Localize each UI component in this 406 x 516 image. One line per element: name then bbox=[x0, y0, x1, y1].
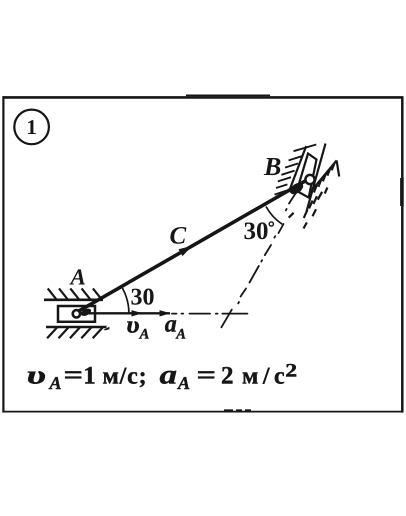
svg-text:1: 1 bbox=[83, 363, 96, 390]
svg-text:30: 30 bbox=[244, 218, 269, 245]
frame left border bbox=[2, 96, 4, 412]
frame top border bbox=[3, 96, 403, 99]
svg-text:C: C bbox=[170, 223, 187, 250]
arrowhead at C bbox=[179, 246, 193, 256]
hatching left of B guide bbox=[275, 145, 317, 195]
slider block A bbox=[58, 306, 95, 322]
right guide line at B bbox=[307, 144, 326, 212]
svg-text:A: A bbox=[49, 373, 62, 393]
svg-text:м/с: м/с bbox=[242, 364, 289, 390]
right border thick blob segment bbox=[400, 178, 404, 206]
task number circle bbox=[14, 110, 49, 145]
frame right border bbox=[401, 96, 404, 412]
lower guide line at A bbox=[46, 326, 107, 329]
arrowhead aA bbox=[160, 310, 171, 316]
horizontal dash-dot axis bbox=[172, 313, 247, 315]
svg-text:A: A bbox=[177, 373, 190, 393]
fringe ticks under right wall line bbox=[314, 163, 335, 193]
degree mark of 30 at B bbox=[269, 222, 273, 226]
left guide line at B bbox=[289, 146, 306, 192]
lambda leg at top right of B guide bbox=[337, 160, 340, 176]
slider block B bbox=[297, 154, 317, 198]
frame bottom border bbox=[3, 411, 404, 413]
angle arc at A bbox=[122, 288, 128, 313]
arrowhead vA bbox=[132, 310, 143, 316]
svg-text:30: 30 bbox=[131, 284, 155, 310]
svg-text:1: 1 bbox=[26, 115, 37, 139]
pin B bbox=[305, 175, 314, 184]
svg-text:=: = bbox=[197, 361, 217, 390]
lower guide hatching at A bbox=[47, 328, 103, 339]
svg-text:a: a bbox=[160, 360, 178, 390]
svg-text:2: 2 bbox=[221, 363, 234, 390]
inclined dash-dot axis through B bbox=[221, 192, 296, 327]
upper guide hatching at A bbox=[48, 288, 102, 299]
frame top border thick segment bbox=[186, 94, 270, 96]
svg-text:=: = bbox=[64, 361, 84, 390]
velocity/acceleration arrow line at A bbox=[79, 312, 170, 314]
svg-text:A: A bbox=[139, 326, 150, 342]
svg-text:A: A bbox=[69, 264, 86, 289]
knot blob right of pin A bbox=[80, 307, 93, 317]
small fleck left of vA label bbox=[104, 327, 110, 331]
pin A bbox=[73, 310, 80, 317]
hatching wall line right of B guide bbox=[310, 160, 337, 192]
rod AB bbox=[78, 179, 310, 312]
svg-text:a: a bbox=[165, 311, 177, 337]
formula: vA = 1 m/s; aA = 2 m/s^2 bbox=[27, 360, 298, 394]
svg-text:2: 2 bbox=[285, 361, 297, 382]
upper guide line at A bbox=[44, 298, 103, 301]
svg-text:υ: υ bbox=[126, 312, 140, 338]
svg-text:υ: υ bbox=[27, 361, 47, 390]
svg-text:м/с;: м/с; bbox=[103, 364, 148, 390]
svg-text:A: A bbox=[175, 326, 186, 342]
svg-text:B: B bbox=[263, 152, 281, 181]
frame bottom thick dotted segment bbox=[224, 409, 251, 411]
rod end blob at B bbox=[288, 180, 306, 196]
angle arc at B bbox=[266, 207, 282, 225]
trailing ticks at lower right of B guide bbox=[289, 188, 328, 229]
